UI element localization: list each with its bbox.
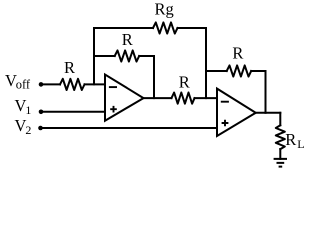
resistor R input (Voff series R) — [60, 79, 85, 90]
svg-text:1: 1 — [25, 103, 31, 117]
wire op-amp1 output to middle R — [144, 97, 172, 99]
svg-text:L: L — [297, 137, 304, 151]
resistor R1 (op-amp1 feedback R) — [115, 50, 140, 61]
svg-text:R: R — [179, 73, 190, 92]
wire feedback R2 right segment — [251, 70, 265, 72]
svg-text:R: R — [122, 30, 133, 49]
svg-text:R: R — [285, 130, 296, 149]
wire top-right horizontal (Rg to node C) — [178, 27, 207, 29]
ground — [274, 159, 287, 167]
wire feedback R1 right segment — [139, 55, 154, 57]
wire feedback R1 vertical down to op-amp1 output — [153, 56, 155, 98]
op-amp U1 plus sign — [110, 106, 117, 113]
wire middle R to op-amp2 inverting input — [195, 97, 218, 99]
op-amp U2 — [217, 89, 256, 136]
wire V2 to op-amp2 non-inverting input — [41, 127, 218, 129]
svg-text:2: 2 — [25, 123, 31, 137]
wire input resistor to op-amp1 inverting input — [85, 83, 106, 85]
svg-text:Rg: Rg — [155, 0, 174, 18]
op-amp U1 minus sign — [109, 86, 117, 88]
wire Voff to input resistor — [41, 83, 60, 85]
svg-text:off: off — [16, 77, 31, 91]
wire op-amp2 output to RL branch — [256, 112, 281, 114]
wire RL top vertical — [279, 113, 281, 126]
wire top-left horizontal (node A to Rg) — [94, 27, 153, 29]
node V1 terminal dot — [39, 110, 44, 115]
wire left vertical (node A up to Rg) — [93, 28, 95, 84]
wire feedback R1 left segment — [94, 55, 115, 57]
op-amp U2 plus sign — [222, 120, 229, 127]
wire feedback R2 vertical down to op-amp2 output — [265, 71, 267, 113]
resistor Rg — [153, 22, 178, 33]
resistor RL (vertical) — [276, 125, 285, 149]
op-amp U2 minus sign — [221, 101, 229, 103]
wire V1 to op-amp1 non-inverting input — [41, 111, 105, 113]
svg-text:R: R — [232, 44, 243, 63]
wire node C vertical (top wire down to op-amp2 input) — [205, 28, 207, 98]
op-amp U1 — [105, 75, 144, 121]
resistor R middle (between op-amps) — [172, 93, 195, 104]
wire feedback R2 left segment — [206, 70, 227, 72]
svg-text:R: R — [64, 58, 75, 77]
node Voff terminal dot — [39, 82, 44, 87]
node V2 terminal dot — [38, 126, 43, 131]
resistor R2 (op-amp2 feedback R) — [227, 65, 252, 76]
wire RL bottom stem — [279, 149, 281, 159]
